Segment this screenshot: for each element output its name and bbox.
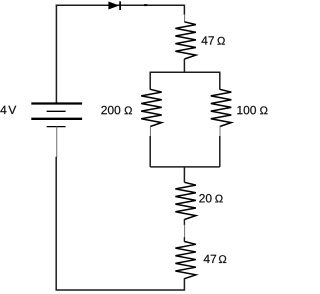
wire lead into resistor R1 (top-right corner down): [183, 5, 185, 15]
label 100 ohm: [237, 106, 267, 115]
wire loop left vertical upper: [149, 72, 151, 90]
wire loop left vertical lower: [149, 126, 151, 136]
diode D1 cathode bar: [119, 1, 121, 10]
wire loop right vertical lower: [219, 126, 221, 136]
wire left rail lower (battery bottom to bottom-left corner): [56, 127, 58, 158]
resistor R2 200 ohm: [141, 89, 162, 126]
wire junction tick on top wire: [144, 4, 147, 6]
wire gray pin stub between R4 and R5: [184, 225, 186, 238]
diode D1 anode triangle: [109, 2, 119, 9]
wire left rail upper (corner to battery top): [55, 5, 57, 103]
wire bottom horizontal: [56, 289, 185, 291]
wire parallel-loop top horizontal: [150, 71, 220, 73]
wire loop right vertical upper: [219, 72, 221, 90]
resistor R4 20 ohm: [175, 182, 196, 219]
wire loop left vertical lower black: [149, 136, 151, 167]
label 47 ohm (bottom): [204, 255, 227, 263]
resistor R3 100 ohm: [211, 89, 232, 126]
wire black segment above R5: [183, 237, 185, 242]
label 4 V: [0, 106, 16, 114]
wire lead R1 bottom to parallel-loop top: [183, 59, 185, 72]
resistor R1 47 ohm (top): [175, 22, 196, 59]
wire lead R5 bottom to bottom wire: [183, 278, 185, 290]
wire lead loop bottom to resistor R4: [183, 167, 185, 183]
label 20 ohm: [199, 194, 222, 203]
wire gray pin stub R1 top: [184, 14, 186, 22]
wire lead between R4 and R5: [183, 219, 185, 225]
wire left rail black segment: [55, 157, 57, 290]
battery BT1 4 V: [31, 104, 82, 127]
wire loop right vertical lower black: [219, 136, 221, 167]
resistor R5 47 ohm (bottom): [175, 242, 196, 279]
wire parallel-loop bottom horizontal: [150, 166, 220, 168]
wire top horizontal from left rail to top-right corner: [56, 4, 185, 6]
label 200 ohm: [101, 106, 132, 115]
label 47 ohm (top): [201, 36, 224, 44]
